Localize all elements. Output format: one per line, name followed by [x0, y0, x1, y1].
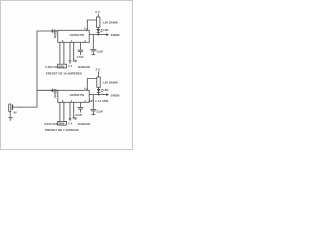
svg-text:2,2UF: 2,2UF [75, 113, 82, 117]
wire: 5V lead [97, 14, 99, 17]
svg-text:LED: LED [103, 28, 108, 32]
svg-text:LM7812 PN: LM7812 PN [70, 33, 84, 37]
arrow head out [106, 33, 109, 36]
svg-text:LM7812 PN: LM7812 PN [70, 93, 84, 97]
ground [8, 112, 12, 120]
capacitor C7 [77, 102, 83, 112]
op-amp U1 regulator body [58, 30, 89, 42]
LED D2 [97, 87, 103, 94]
frame border [1, 1, 133, 150]
svg-text:C-4: C-4 [68, 65, 73, 68]
resistor R3 [97, 77, 100, 87]
capacitor C1 (input, top block) [54, 30, 56, 38]
wire: pin3 output bus (bottom) [89, 94, 106, 96]
wire: main input rail vertical [13, 31, 58, 107]
wire: pin4 to 5V node (bottom) [87, 79, 98, 91]
battery BT1 short plate [12, 104, 13, 109]
svg-text:48V a 1A 60W: 48V a 1A 60W [89, 99, 109, 103]
svg-text:BABLIAD: BABLIAD [78, 122, 90, 126]
battery BT1 long plate [9, 104, 11, 112]
capacitor C8 small [69, 117, 77, 121]
wire: bus to C6 [92, 95, 94, 110]
svg-text:PRESET DE 10 AMPERES: PRESET DE 10 AMPERES [46, 71, 82, 75]
svg-text:3,2uF: 3,2uF [96, 109, 103, 113]
op-amp U2 regulator body [58, 90, 89, 102]
LED D1 [97, 27, 103, 34]
pin 4 tick [86, 29, 88, 31]
capacitor C5 (input, bottom block) [54, 89, 56, 97]
svg-text:C-4: C-4 [68, 123, 73, 126]
pin 4 tick [86, 89, 88, 91]
svg-text:S42EM: S42EM [111, 93, 121, 97]
wire: pin leads down to filter box (bottom) [60, 102, 74, 121]
resistor R4 body box [58, 121, 67, 125]
wire: pin leads down to filter box [60, 42, 74, 64]
svg-text:DHM: DHM [59, 122, 65, 125]
svg-text:S42EM: S42EM [111, 33, 121, 37]
wire: pin4 to 5V node [87, 20, 98, 30]
junction [98, 94, 100, 96]
svg-text:DHM: DHM [59, 65, 65, 68]
svg-text:1,00 OHMS: 1,00 OHMS [102, 20, 118, 24]
svg-text:LED: LED [103, 88, 108, 92]
svg-text:4,7UF: 4,7UF [77, 55, 84, 59]
svg-text:3,2uF: 3,2uF [96, 49, 103, 53]
resistor R1 [97, 17, 100, 27]
svg-text:1,00 OHMS: 1,00 OHMS [102, 81, 118, 85]
wire: bottom IC input branch [37, 89, 58, 91]
resistor R2 body box [58, 64, 67, 68]
wire: bus to C3 [92, 35, 94, 50]
capacitor C2 [77, 42, 83, 55]
junction [98, 34, 100, 36]
wire: 5V lead (bottom) [98, 71, 100, 77]
svg-text:5 V: 5 V [95, 10, 100, 14]
svg-text:9V: 9V [14, 110, 17, 114]
wire: pin3 output bus (top) [89, 34, 106, 36]
svg-text:PRESET DE 1 DIUEGNI: PRESET DE 1 DIUEGNI [45, 128, 79, 132]
svg-text:5 V: 5 V [96, 68, 101, 72]
arrow head out [106, 93, 109, 96]
node tick on input wire (bottom) [52, 89, 54, 92]
svg-text:BABLIAD: BABLIAD [78, 65, 90, 69]
capacitor C4 small [69, 60, 77, 64]
capacitor C3 [90, 49, 96, 54]
capacitor C6 [90, 109, 96, 114]
node tick on input wire (top) [52, 29, 54, 32]
